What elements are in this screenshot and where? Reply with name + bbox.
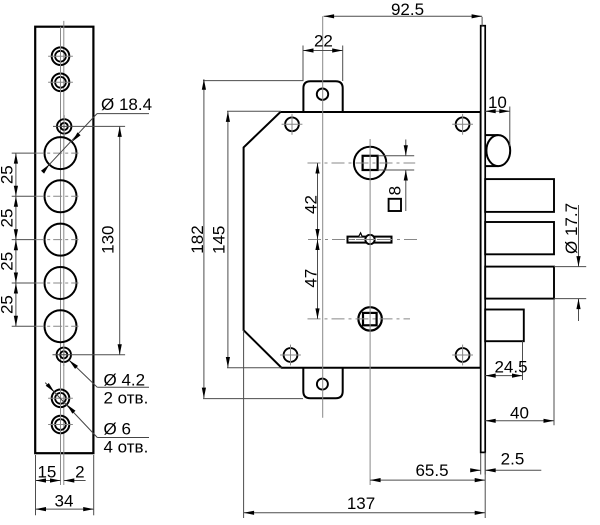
cylinder centerline horizontal — [308, 162, 416, 164]
svg-text:2: 2 — [75, 462, 84, 481]
dimension 92.5 line — [324, 15, 483, 17]
dimension 8 extension lines — [378, 156, 415, 170]
screw hole mark #3 — [280, 345, 301, 366]
label Ø4.2 2 holes — [104, 370, 149, 407]
dimension 182 extension lines — [203, 81, 303, 399]
latch bolt body — [485, 135, 510, 166]
leader Ø4.2 — [69, 360, 149, 387]
dimension 25 chain arrows — [14, 153, 18, 326]
lever bar — [348, 237, 392, 243]
svg-text:25: 25 — [0, 295, 17, 314]
dimension 65.5 line — [370, 479, 485, 481]
dimension 47 arrows — [315, 240, 319, 319]
dimension 2.5 lines — [471, 469, 542, 471]
hole Ø18.4 #5 — [35, 310, 78, 342]
svg-text:22: 22 — [314, 31, 333, 50]
lever hidden dash line — [350, 239, 389, 241]
cylinder centerline vertical — [369, 139, 371, 485]
leader Ø18.4 arrows — [41, 132, 81, 173]
lower hub centerline horizontal — [308, 318, 411, 320]
lower square hole — [363, 313, 377, 325]
dimension 25 chain extension lines — [12, 153, 36, 326]
svg-text:4 отв.: 4 отв. — [104, 437, 149, 456]
cylinder square hole 8mm — [363, 156, 378, 170]
hole Ø6 #1 — [48, 44, 73, 69]
screw hole mark #4 — [452, 345, 473, 366]
dimension 2.5 arrows — [470, 468, 496, 472]
hole Ø18.4 #1 — [35, 137, 78, 169]
hole Ø18.4 #2 — [35, 180, 78, 212]
dimension 2 line — [64, 480, 86, 482]
hole Ø18.4 #3 — [35, 224, 78, 256]
label Ø6 4 holes — [104, 419, 149, 456]
dimension 40 line — [485, 420, 554, 422]
svg-text:Ø 6: Ø 6 — [104, 419, 131, 438]
dimension 34 line — [36, 508, 94, 510]
hole Ø6 #3 — [48, 386, 73, 411]
tab hole bottom — [317, 379, 328, 390]
leader Ø6 diameter line — [45, 383, 149, 438]
screw hole mark #2 — [452, 114, 473, 135]
leader Ø18.4 diameter line — [44, 114, 149, 171]
dimension 8 line — [405, 140, 407, 212]
svg-text:137: 137 — [347, 494, 375, 513]
svg-text:25: 25 — [0, 165, 17, 184]
svg-text:24.5: 24.5 — [494, 358, 527, 377]
faceplate bend line left — [60, 27, 62, 485]
svg-text:8: 8 — [386, 186, 405, 195]
dimension Ø17.7 arrows — [576, 256, 580, 309]
svg-text:2 отв.: 2 отв. — [104, 389, 149, 408]
svg-text:Ø 17.7: Ø 17.7 — [562, 203, 581, 254]
lever spike — [359, 233, 363, 237]
dimension 137 left extension — [243, 330, 245, 518]
leader Ø4.2 arrow — [69, 360, 78, 369]
hole Ø4.2 top — [57, 115, 71, 137]
hole Ø18.4 #4 — [35, 267, 78, 299]
lower hub circle — [358, 307, 381, 330]
deadbolt 2 — [485, 222, 554, 254]
dimension 145 line — [227, 111, 229, 367]
dimension 137 arrows — [244, 511, 486, 515]
svg-text:182: 182 — [188, 225, 207, 253]
svg-text:34: 34 — [55, 491, 74, 510]
svg-text:145: 145 — [210, 226, 229, 254]
dimension 8 arrows — [404, 145, 408, 180]
svg-text:10: 10 — [488, 93, 507, 112]
dimension 40 arrows — [485, 419, 554, 423]
dimension 2 arrow — [64, 478, 75, 482]
dimension 40 extension — [553, 299, 555, 426]
dimension 130 arrows — [118, 126, 122, 354]
top fixing tab — [303, 81, 342, 113]
dimension 10 extension — [509, 107, 511, 147]
lock body outline — [244, 112, 481, 368]
svg-text:2.5: 2.5 — [501, 449, 525, 468]
hole Ø6 #2 — [48, 70, 73, 95]
svg-text:42: 42 — [302, 195, 321, 214]
dimension 182 arrows — [202, 79, 206, 398]
dimension 22 arrows — [303, 48, 343, 52]
faceplate bend line right / centerline — [63, 21, 65, 485]
svg-text:47: 47 — [302, 269, 321, 288]
svg-text:15: 15 — [37, 462, 56, 481]
dimension 137 line — [244, 512, 486, 514]
svg-text:Ø 18.4: Ø 18.4 — [101, 95, 152, 114]
dimension 15-2-34 extension lines — [36, 455, 94, 515]
screw hole mark #1 — [282, 114, 303, 135]
svg-text:25: 25 — [0, 252, 17, 271]
dimension 130 extension top — [53, 125, 125, 127]
dimension Ø17.7 line — [578, 205, 580, 321]
cylinder hub circle — [354, 147, 386, 179]
leader Ø6 arrows — [46, 383, 76, 414]
svg-text:25: 25 — [0, 209, 17, 228]
dimension 24.5 line — [485, 375, 522, 377]
faceplate front view outline — [35, 27, 93, 454]
dimension 10 line — [485, 110, 510, 112]
hole Ø4.2 bottom — [53, 344, 126, 366]
svg-text:40: 40 — [510, 403, 529, 422]
tab centerline vertical — [322, 16, 324, 417]
hole Ø6 #4 — [48, 412, 73, 437]
dimension 65.5 arrows — [370, 478, 485, 482]
dimension 42 arrows — [315, 163, 319, 240]
dimension 92.5 arrows — [324, 14, 483, 18]
deadbolt 1 — [485, 179, 554, 212]
dimension 24.5 extension — [522, 341, 524, 380]
svg-text:Ø 4.2: Ø 4.2 — [104, 370, 146, 389]
dimension 22 extension lines — [303, 46, 343, 82]
dimension 10 arrows — [485, 109, 510, 113]
dimension 47 line — [317, 240, 319, 319]
square symbol for 8 dim — [389, 199, 401, 211]
dimension 65.5 right extension — [484, 452, 486, 518]
dimension 34 arrows — [36, 507, 94, 511]
deadbolt 3 — [485, 267, 554, 299]
svg-text:92.5: 92.5 — [391, 0, 424, 19]
lever centerline horizontal — [308, 239, 421, 241]
dimension Ø17.7 extension lines — [554, 267, 586, 299]
dimension 22 line — [303, 50, 343, 52]
dimension 42 line — [317, 163, 319, 240]
dimension 145 extension lines — [227, 111, 282, 368]
lever hub circle — [365, 235, 374, 244]
lower bolt — [485, 310, 524, 342]
dimension 130 line — [119, 126, 121, 354]
dimension 25 chain line — [15, 153, 17, 326]
dimension 24.5 arrows — [485, 374, 522, 378]
faceplate strip edge view — [481, 26, 486, 453]
svg-text:65.5: 65.5 — [415, 461, 448, 480]
svg-text:130: 130 — [99, 226, 118, 254]
tab hole top — [317, 89, 328, 100]
dimension 182 line — [203, 79, 205, 398]
dimension 92.5 extension right — [481, 17, 483, 26]
bottom fixing tab — [303, 367, 342, 399]
dimension 15 arrows — [36, 478, 61, 482]
dimension 145 arrows — [226, 111, 230, 367]
dimension 2.5 extension lines — [481, 453, 486, 475]
dimension 15 line — [36, 480, 61, 482]
